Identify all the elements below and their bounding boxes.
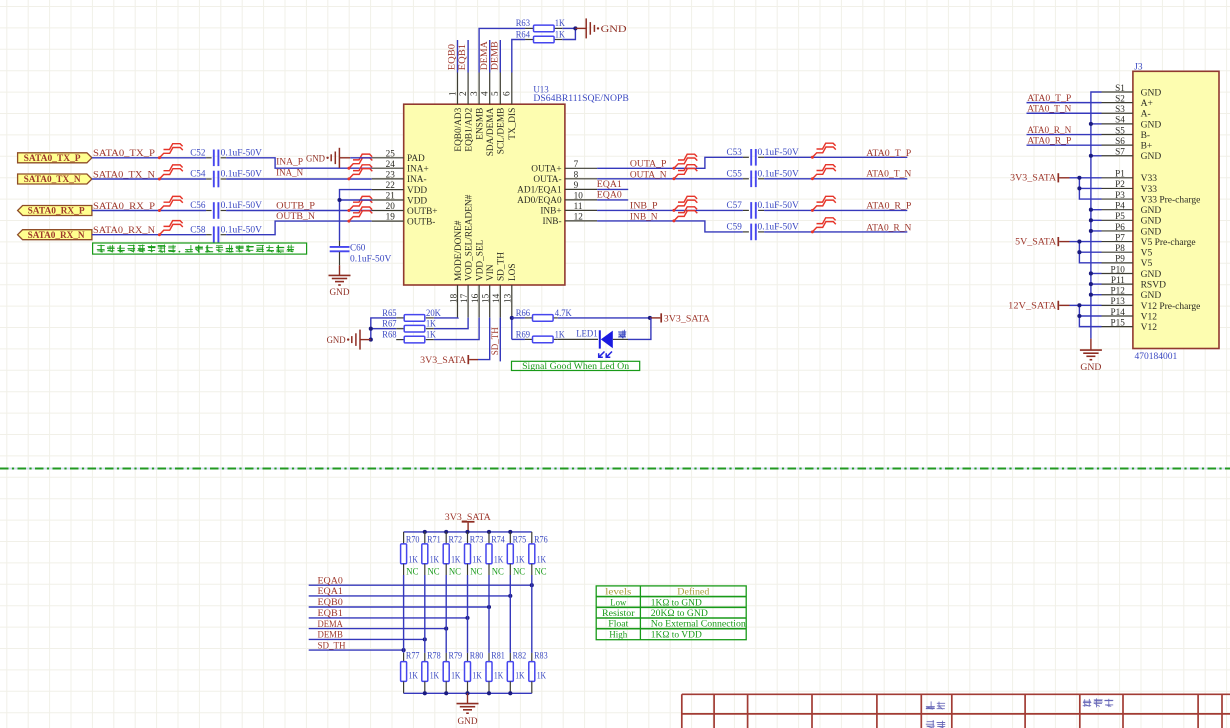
power port 12V_SATA J3 xyxy=(1008,300,1079,310)
svg-text:EQB0/AD3: EQB0/AD3 xyxy=(454,107,464,151)
net label EQB1 xyxy=(318,608,343,619)
svg-text:OUTA+: OUTA+ xyxy=(531,165,561,175)
svg-text:SD_TH: SD_TH xyxy=(318,640,346,651)
svg-text:3V3_SATA: 3V3_SATA xyxy=(1010,173,1056,183)
svg-text:P1: P1 xyxy=(1115,169,1125,179)
wire ATA0_R_N J3 xyxy=(1027,134,1102,136)
svg-text:V33 Pre-charge: V33 Pre-charge xyxy=(1141,195,1201,205)
svg-text:GND: GND xyxy=(1080,362,1101,373)
svg-text:9: 9 xyxy=(574,180,579,190)
svg-text:GND: GND xyxy=(1141,227,1162,237)
svg-text:DEMB: DEMB xyxy=(489,41,500,70)
table logic levels xyxy=(596,586,746,641)
svg-text:SATA0_TX_N: SATA0_TX_N xyxy=(24,175,81,185)
label NC R75 xyxy=(513,568,525,578)
svg-text:V5 Pre-charge: V5 Pre-charge xyxy=(1141,238,1196,248)
net label ATA0_R_P J3 xyxy=(1027,135,1071,146)
svg-text:R77: R77 xyxy=(406,652,420,662)
resistor R70 xyxy=(401,532,420,575)
svg-text:0.1uF-50V: 0.1uF-50V xyxy=(221,200,263,210)
wire TX_DIS to R64 xyxy=(512,40,525,73)
power port 3V3_SATA at R66 xyxy=(650,313,710,323)
wire 3V3 rail top xyxy=(404,531,532,533)
text green LED color xyxy=(618,330,626,339)
ground GND top right xyxy=(575,18,626,38)
wire EQA0 xyxy=(309,584,532,586)
svg-text:ATA0_R_P: ATA0_R_P xyxy=(1027,135,1071,146)
resistor R78 xyxy=(422,652,441,694)
net label EQA0 xyxy=(318,575,343,586)
svg-text:0.1uF-50V: 0.1uF-50V xyxy=(758,147,800,157)
net label DEMB xyxy=(318,630,343,641)
svg-text:GND: GND xyxy=(306,153,325,164)
net label EQA1 xyxy=(597,179,622,190)
svg-text:PAD: PAD xyxy=(407,154,425,164)
svg-text:SATA0_RX_P: SATA0_RX_P xyxy=(28,207,85,217)
net label OUTA_P xyxy=(630,159,667,170)
capacitor C52 xyxy=(190,148,262,167)
ground GND at R68 rail xyxy=(327,330,371,350)
svg-text:470184001: 470184001 xyxy=(1135,352,1178,362)
diff pair marker ATA0_R_N xyxy=(811,218,836,234)
svg-text:VDD_SEL: VDD_SEL xyxy=(475,239,485,281)
svg-text:R72: R72 xyxy=(449,536,463,546)
svg-text:GND: GND xyxy=(327,335,346,346)
svg-text:R81: R81 xyxy=(491,652,505,662)
svg-text:1K: 1K xyxy=(430,671,440,681)
svg-text:18: 18 xyxy=(448,293,458,303)
port SATA0_RX_N xyxy=(18,230,92,241)
svg-text:25: 25 xyxy=(386,148,396,158)
svg-text:Signal Good When Led On: Signal Good When Led On xyxy=(522,362,629,372)
junction EQA1 xyxy=(508,594,512,598)
label NC R70 xyxy=(406,568,418,578)
wire MODE to R65 xyxy=(434,317,458,319)
svg-text:OUTB+: OUTB+ xyxy=(407,207,438,217)
junction dots bottom rail xyxy=(423,691,513,695)
wire EQA0 stub xyxy=(597,199,628,201)
ground GND at PAD pin25 xyxy=(306,148,372,168)
svg-text:10: 10 xyxy=(574,191,584,201)
wire EQA1 xyxy=(309,595,511,597)
svg-text:EQB1: EQB1 xyxy=(457,44,468,70)
svg-text:Float: Float xyxy=(608,619,628,630)
svg-text:4: 4 xyxy=(480,91,490,96)
J3 P pins xyxy=(1102,169,1201,333)
resistor R69 xyxy=(516,330,565,342)
svg-text:C59: C59 xyxy=(727,223,743,233)
svg-text:P5: P5 xyxy=(1115,211,1125,221)
junction SD_TH xyxy=(402,648,406,652)
svg-text:12: 12 xyxy=(574,212,584,222)
label NC R72 xyxy=(449,568,461,578)
svg-text:16: 16 xyxy=(470,293,480,303)
svg-text:GND: GND xyxy=(1141,88,1162,98)
diff pair marker RX_P left xyxy=(158,196,183,212)
wire SD_TH xyxy=(499,318,501,362)
svg-text:P4: P4 xyxy=(1115,200,1125,210)
svg-text:DEMA: DEMA xyxy=(318,619,343,630)
wire DEMB pin5 xyxy=(499,40,501,73)
net label SD_TH xyxy=(318,640,346,651)
svg-text:20KΩ to GND: 20KΩ to GND xyxy=(651,608,708,619)
svg-text:GND: GND xyxy=(1141,291,1162,301)
svg-text:13: 13 xyxy=(503,293,513,303)
svg-text:DS64BR111SQE/NOPB: DS64BR111SQE/NOPB xyxy=(533,93,628,103)
capacitor C59 xyxy=(727,222,800,241)
diff pair marker OUTA_P xyxy=(672,154,697,170)
diff pair marker INB_P xyxy=(672,196,697,212)
power port 5V_SATA J3 xyxy=(1015,236,1079,246)
junction EQA0 xyxy=(530,583,534,587)
svg-text:3V3_SATA: 3V3_SATA xyxy=(664,313,710,323)
net label ATA0_T_P J3 xyxy=(1027,93,1071,104)
net label ATA0_T_P xyxy=(866,148,911,159)
resistor R72 xyxy=(443,532,462,575)
designator J3 xyxy=(1134,62,1143,72)
wire DEMB xyxy=(309,638,425,640)
svg-text:EQB0: EQB0 xyxy=(447,44,458,70)
svg-text:3V3_SATA: 3V3_SATA xyxy=(420,355,466,365)
svg-text:3: 3 xyxy=(469,91,479,96)
svg-text:S3: S3 xyxy=(1115,104,1125,114)
resistor R66 xyxy=(516,309,572,321)
svg-text:23: 23 xyxy=(386,170,396,180)
net label DEMB xyxy=(489,41,500,70)
svg-text:RSVD: RSVD xyxy=(1141,281,1166,291)
svg-text:24: 24 xyxy=(386,159,396,169)
svg-text:SATA0_RX_N: SATA0_RX_N xyxy=(28,231,85,241)
svg-text:1K: 1K xyxy=(537,671,547,681)
svg-text:0.1uF-50V: 0.1uF-50V xyxy=(221,224,263,234)
svg-text:NC: NC xyxy=(406,568,418,578)
svg-text:19: 19 xyxy=(386,212,396,222)
svg-text:AD1/EQA1: AD1/EQA1 xyxy=(517,186,562,196)
wire DEMA xyxy=(309,628,447,630)
svg-text:1K: 1K xyxy=(451,671,461,681)
connector J3 body xyxy=(1133,71,1219,348)
svg-text:R69: R69 xyxy=(516,330,531,340)
wire ENSMB to R63 xyxy=(479,28,525,72)
svg-text:A-: A- xyxy=(1141,110,1151,120)
svg-text:ATA0_T_P: ATA0_T_P xyxy=(1027,93,1071,104)
svg-text:V12 Pre-charge: V12 Pre-charge xyxy=(1141,302,1201,312)
svg-text:OUTB-: OUTB- xyxy=(407,217,435,227)
wire VIN to 3V3 xyxy=(469,318,490,360)
svg-text:GND: GND xyxy=(330,287,350,298)
svg-text:EQB1/AD2: EQB1/AD2 xyxy=(464,107,474,151)
svg-text:7: 7 xyxy=(574,159,579,169)
svg-text:S2: S2 xyxy=(1115,93,1125,103)
value DS64BR111SQE/NOPB xyxy=(533,93,628,103)
capacitor C53 xyxy=(727,147,800,166)
wire INB_P xyxy=(597,209,907,211)
resistor R64 xyxy=(516,30,565,43)
svg-text:VDD: VDD xyxy=(407,186,427,196)
svg-text:ATA0_R_N: ATA0_R_N xyxy=(1027,125,1071,136)
net label SD_TH rotated xyxy=(490,327,501,355)
svg-text:INA+: INA+ xyxy=(407,165,429,175)
svg-text:20K: 20K xyxy=(426,309,441,319)
resistor R67 xyxy=(382,320,436,332)
wire VDD_SEL to R68 xyxy=(434,318,479,340)
svg-text:NC: NC xyxy=(492,568,504,578)
net label ATA0_R_N xyxy=(866,222,911,233)
net label EQB1 xyxy=(457,44,468,70)
svg-text:R66: R66 xyxy=(516,309,531,319)
svg-text:P9: P9 xyxy=(1115,254,1125,264)
wire EQA1 stub xyxy=(597,188,628,190)
svg-text:5: 5 xyxy=(490,91,500,96)
svg-text:GND: GND xyxy=(1141,270,1162,280)
svg-text:INB_N: INB_N xyxy=(630,211,658,222)
U13 left pins 25-19 xyxy=(372,148,438,227)
svg-text:P14: P14 xyxy=(1110,307,1125,317)
svg-text:R73: R73 xyxy=(470,536,484,546)
svg-text:OUTA_P: OUTA_P xyxy=(630,159,667,170)
wire EQB1 pin2 xyxy=(467,40,469,73)
svg-text:V5: V5 xyxy=(1141,249,1153,259)
svg-text:1K: 1K xyxy=(409,671,419,681)
net label EQB0 xyxy=(318,597,343,608)
svg-text:1K: 1K xyxy=(472,671,482,681)
svg-text:VIN: VIN xyxy=(486,264,496,281)
svg-text:INB_P: INB_P xyxy=(630,201,658,212)
net label DEMA xyxy=(318,619,343,630)
junction xyxy=(573,26,577,30)
svg-text:V12: V12 xyxy=(1141,323,1158,333)
net label SATA0_RX_P xyxy=(93,201,155,212)
junction EQB1 xyxy=(465,616,469,620)
net label DEMA xyxy=(479,41,490,70)
svg-text:6: 6 xyxy=(502,91,512,96)
svg-text:1K: 1K xyxy=(472,555,482,565)
svg-text:1K: 1K xyxy=(426,331,436,341)
svg-text:SCL/DEMB: SCL/DEMB xyxy=(497,108,507,155)
svg-text:8: 8 xyxy=(574,169,579,179)
capacitor C60 xyxy=(330,241,392,266)
junction xyxy=(648,316,652,320)
svg-text:ATA0_T_N: ATA0_T_N xyxy=(1027,104,1071,115)
svg-text:1K: 1K xyxy=(494,671,504,681)
svg-text:1K: 1K xyxy=(430,555,440,565)
label NC R73 xyxy=(470,568,482,578)
diff pair marker RX_N left xyxy=(158,221,183,237)
net label INB_P xyxy=(630,201,658,212)
wire EQB0 pin1 xyxy=(457,40,459,73)
resistor R71 xyxy=(422,532,441,575)
svg-text:P7: P7 xyxy=(1115,232,1125,242)
junction xyxy=(369,338,373,342)
net label SATA0_TX_P xyxy=(93,148,155,159)
svg-text:R79: R79 xyxy=(449,652,463,662)
svg-text:levels: levels xyxy=(605,586,631,597)
ground GND bottom network xyxy=(457,693,479,727)
svg-text:OUTA_N: OUTA_N xyxy=(630,169,667,180)
value 470184001 xyxy=(1135,352,1178,362)
wire SD_TH xyxy=(309,649,404,651)
capacitor C55 xyxy=(727,169,800,188)
svg-text:P2: P2 xyxy=(1115,179,1125,189)
svg-text:2: 2 xyxy=(458,91,468,96)
svg-text:0.1uF-50V: 0.1uF-50V xyxy=(221,169,263,179)
svg-text:0.1uF-50V: 0.1uF-50V xyxy=(350,253,392,263)
resistor R82 xyxy=(507,652,526,694)
net label OUTB_N xyxy=(276,211,315,222)
resistor R75 xyxy=(507,532,526,575)
svg-text:ENSMB: ENSMB xyxy=(475,108,485,140)
svg-text:ATA0_R_N: ATA0_R_N xyxy=(866,222,911,233)
comment box chinese xyxy=(93,243,307,254)
wire LED to 3V3 xyxy=(628,318,651,340)
svg-text:EQA0: EQA0 xyxy=(318,575,343,586)
svg-text:OUTB_N: OUTB_N xyxy=(276,211,315,222)
net label INA_P xyxy=(276,157,303,168)
wire ATA0_T_N J3 xyxy=(1027,112,1102,114)
svg-text:GND: GND xyxy=(601,24,627,35)
svg-text:P15: P15 xyxy=(1110,317,1125,327)
svg-text:V12: V12 xyxy=(1141,312,1158,322)
svg-text:R76: R76 xyxy=(534,536,548,546)
svg-text:High: High xyxy=(609,629,627,640)
svg-text:DEMA: DEMA xyxy=(479,41,490,70)
wire EQB1 xyxy=(309,617,468,619)
svg-text:R82: R82 xyxy=(513,652,527,662)
resistor R77 xyxy=(401,652,420,694)
wire ATA0_T_P J3 xyxy=(1027,102,1102,104)
title text jiaodui xyxy=(926,720,946,728)
svg-text:ATA0_T_N: ATA0_T_N xyxy=(866,169,911,180)
svg-text:NC: NC xyxy=(449,568,461,578)
svg-text:EQB1: EQB1 xyxy=(318,608,343,619)
svg-text:Low: Low xyxy=(610,597,626,608)
wire 12V J3 xyxy=(1077,303,1101,326)
svg-text:P8: P8 xyxy=(1115,243,1125,253)
wire SATA0_TX_P xyxy=(92,158,372,168)
wire J3 ground bus xyxy=(1089,92,1102,339)
wire LOS to R66 xyxy=(512,317,525,319)
svg-text:0.1uF-50V: 0.1uF-50V xyxy=(758,169,800,179)
wire R66 to 3V3 xyxy=(558,317,650,319)
svg-text:NC: NC xyxy=(470,568,482,578)
wire DEMA pin4 xyxy=(489,40,491,73)
label NC R74 xyxy=(492,568,504,578)
resistor R81 xyxy=(486,652,505,694)
U13 right pins 7-12 xyxy=(517,159,597,227)
svg-text:ATA0_R_P: ATA0_R_P xyxy=(866,200,911,211)
svg-text:AD0/EQA0: AD0/EQA0 xyxy=(517,196,562,206)
svg-text:NC: NC xyxy=(513,568,525,578)
port SATA0_TX_N xyxy=(18,174,92,185)
wire LOS rail xyxy=(511,318,513,340)
svg-text:C52: C52 xyxy=(190,149,206,159)
wire LOS to R69 xyxy=(512,338,525,340)
svg-text:OUTA-: OUTA- xyxy=(533,175,561,185)
wire SATA0_RX_P xyxy=(92,210,372,212)
svg-text:INA-: INA- xyxy=(407,175,427,185)
svg-text:P11: P11 xyxy=(1111,275,1125,285)
diff pair marker ATA0_T_P xyxy=(811,143,836,159)
capacitor C56 xyxy=(190,200,262,219)
svg-text:1K: 1K xyxy=(451,555,461,565)
resistor R76 xyxy=(529,532,548,575)
wire R63 R64 to GND junction xyxy=(562,28,575,39)
comment box signal good xyxy=(512,361,640,372)
wire 3V3 J3 xyxy=(1077,176,1101,199)
svg-text:12V_SATA: 12V_SATA xyxy=(1008,300,1056,310)
wire EQB0 xyxy=(309,606,489,608)
svg-text:GND: GND xyxy=(1141,206,1162,216)
net label INA_N xyxy=(276,167,303,178)
svg-text:C58: C58 xyxy=(190,225,206,235)
svg-text:R71: R71 xyxy=(427,536,441,546)
junction xyxy=(510,316,514,320)
svg-text:GND: GND xyxy=(458,716,478,727)
wire VDD rail xyxy=(340,190,372,241)
svg-text:A+: A+ xyxy=(1141,99,1153,109)
wire OUTA_N xyxy=(597,178,907,180)
svg-text:OUTB_P: OUTB_P xyxy=(276,200,315,211)
svg-text:22: 22 xyxy=(386,180,396,190)
svg-text:21: 21 xyxy=(386,191,396,201)
label NC R76 xyxy=(535,568,547,578)
resistor R68 xyxy=(382,331,436,343)
wire INB_N xyxy=(597,221,907,232)
net label ATA0_R_N J3 xyxy=(1027,125,1071,136)
diff pair marker OUTB_P xyxy=(347,196,372,212)
svg-text:LED1: LED1 xyxy=(576,330,598,340)
svg-text:S4: S4 xyxy=(1115,115,1125,125)
svg-text:R74: R74 xyxy=(491,536,505,546)
svg-text:15: 15 xyxy=(481,293,491,303)
svg-text:P10: P10 xyxy=(1110,264,1125,274)
wire GND rail bottom xyxy=(404,692,532,694)
svg-text:C57: C57 xyxy=(727,201,743,211)
label NC R71 xyxy=(428,568,440,578)
svg-text:No External Connection: No External Connection xyxy=(651,619,746,630)
led LED1 xyxy=(576,330,628,358)
svg-text:SD_TH: SD_TH xyxy=(490,327,501,355)
svg-text:J3: J3 xyxy=(1134,62,1143,72)
svg-text:S6: S6 xyxy=(1115,136,1125,146)
ground GND J3 xyxy=(1080,339,1102,374)
svg-text:B+: B+ xyxy=(1141,142,1153,152)
svg-text:EQA0: EQA0 xyxy=(597,189,622,200)
junction EQB0 xyxy=(487,605,491,609)
svg-text:S1: S1 xyxy=(1115,83,1125,93)
diff pair marker ATA0_T_N xyxy=(811,165,836,181)
svg-text:14: 14 xyxy=(491,293,501,303)
net label SATA0_RX_N xyxy=(93,225,155,236)
wire R69 to LED xyxy=(558,338,598,340)
svg-text:Resistor: Resistor xyxy=(602,608,635,619)
ic U13 body xyxy=(404,104,565,285)
capacitor C54 xyxy=(190,169,262,188)
svg-text:Defined: Defined xyxy=(677,586,709,597)
capacitor C58 xyxy=(190,224,262,243)
net label OUTB_P xyxy=(276,200,315,211)
wire OUTA_P xyxy=(597,157,907,168)
U13 top pins 1-6 xyxy=(447,73,518,157)
svg-text:1K: 1K xyxy=(515,671,525,681)
svg-text:1: 1 xyxy=(447,91,457,96)
svg-text:R75: R75 xyxy=(513,536,527,546)
svg-text:INA_P: INA_P xyxy=(276,157,303,168)
svg-text:P3: P3 xyxy=(1115,190,1125,200)
svg-text:R64: R64 xyxy=(516,30,531,40)
svg-text:C55: C55 xyxy=(727,169,743,179)
resistor R73 xyxy=(465,532,484,575)
